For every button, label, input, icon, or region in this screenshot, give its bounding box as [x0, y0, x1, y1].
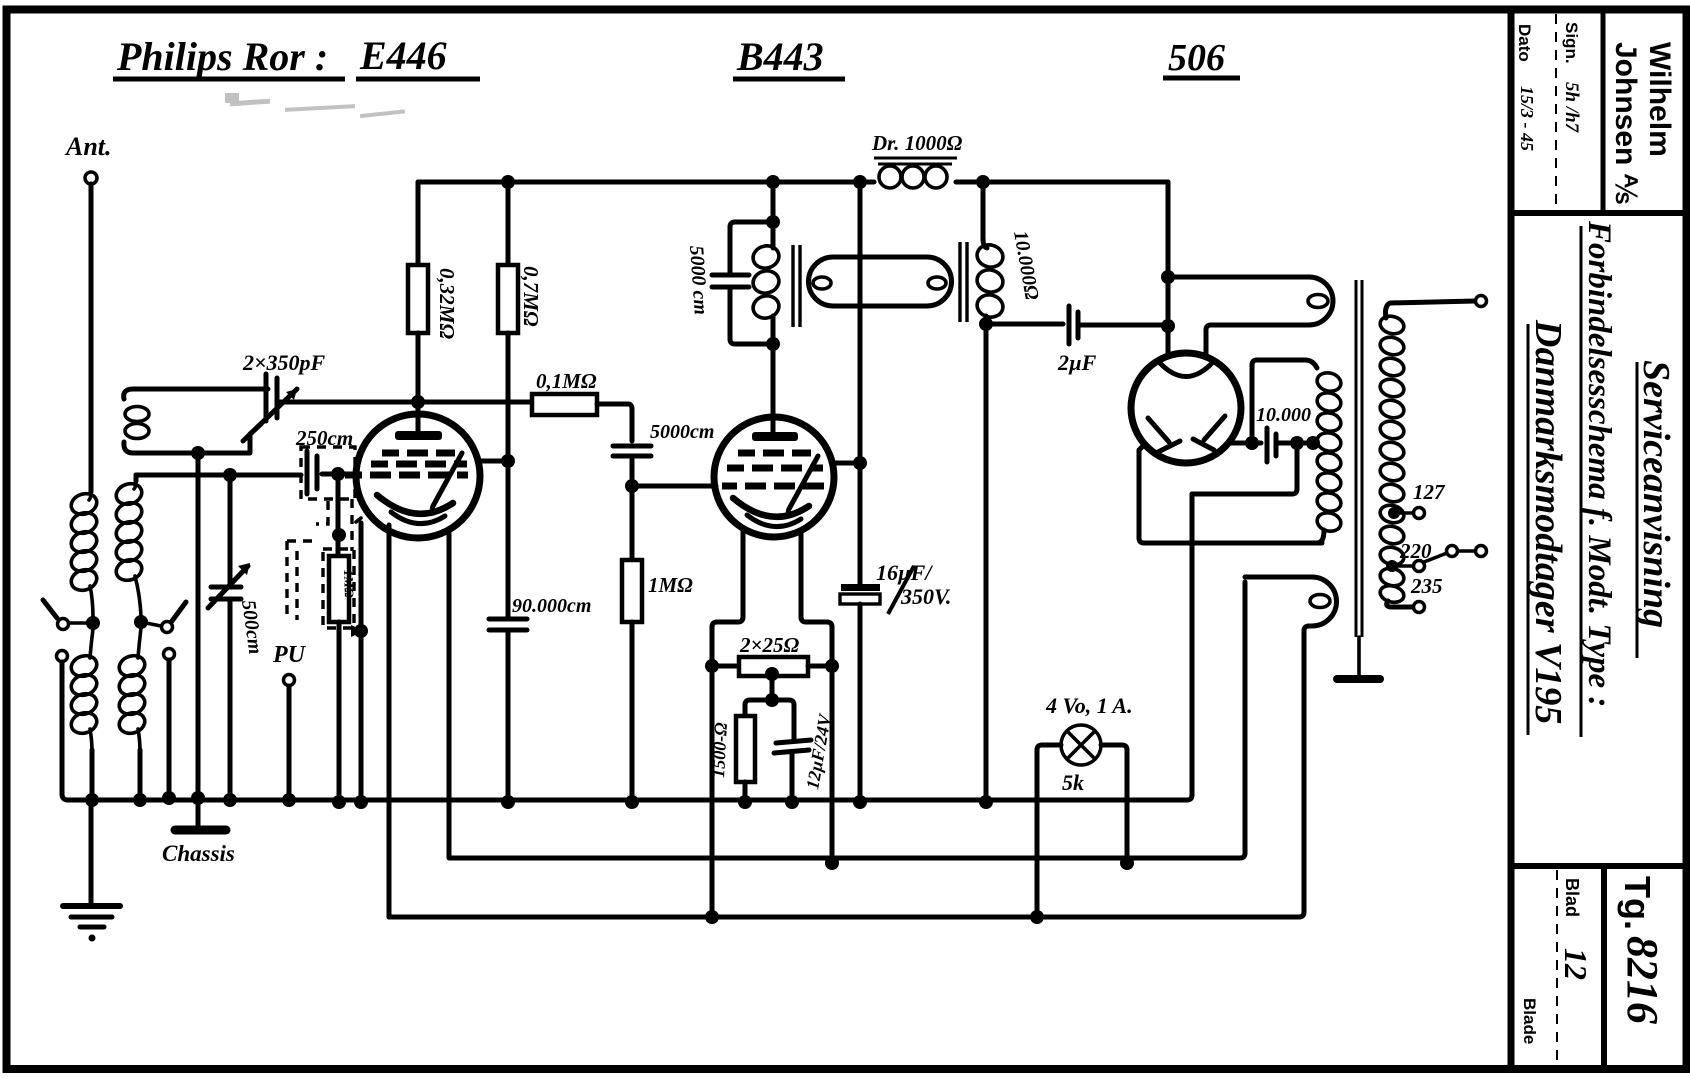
sidebar title Serviceanvisning — [1635, 360, 1677, 658]
choke Dr. 1000 ohm — [879, 166, 947, 188]
company name Wilhelm Johnsen A/S — [1609, 42, 1676, 204]
chassis connection symbol — [175, 798, 226, 830]
core IF1 laminations — [793, 245, 800, 327]
wire B+ right riser — [1166, 182, 1171, 356]
wire B+ to V2 anode — [858, 182, 863, 463]
switch S1 wave-band left — [43, 600, 88, 662]
coil IF2 secondary winding — [975, 182, 1006, 324]
resistor R1 0,32M anode — [408, 182, 428, 402]
sidebar subtitle Forbindelsesschema f. Modt. Type: — [1581, 220, 1617, 737]
svg-text:350V.: 350V. — [900, 584, 951, 609]
svg-text:220: 220 — [1399, 539, 1432, 563]
label 2uF — [1057, 350, 1097, 375]
tube V2 B443 envelope — [714, 417, 834, 537]
node filament return 3 — [705, 910, 719, 924]
Blad field — [1558, 878, 1594, 980]
Tg. number field — [1617, 876, 1667, 1024]
node HT coil top lead — [1245, 436, 1259, 450]
node junction switch A — [86, 616, 100, 630]
faint smudge — [225, 93, 405, 118]
svg-text:2×25Ω: 2×25Ω — [739, 633, 799, 657]
core power transformer — [1356, 280, 1362, 637]
label 0,7M ohm — [519, 266, 543, 327]
label 16uF 350V — [876, 560, 951, 614]
node V2 anode — [853, 456, 867, 470]
title block divider: dashed Blade strip — [1556, 870, 1558, 1062]
Dato value handwritten 15/3-45 — [1517, 86, 1537, 151]
heading tube 506 — [1163, 37, 1240, 79]
node R2 top rail — [501, 175, 515, 189]
node grid leak rail — [332, 795, 346, 809]
tap 235V — [1414, 602, 1425, 613]
node V2 grid junction — [625, 479, 639, 493]
wire hum pot right return — [830, 666, 835, 863]
label 0,32M ohm — [435, 268, 459, 339]
svg-text:Forbindelsesschema f. Modt. Ty: Forbindelsesschema f. Modt. Type : — [1581, 220, 1617, 707]
capacitor 5000cm coupling — [613, 446, 651, 486]
tube V3 506 envelope — [1131, 353, 1241, 463]
node grid junction — [331, 467, 345, 481]
svg-text:0,7MΩ: 0,7MΩ — [519, 266, 543, 327]
svg-text:Serviceanvisning: Serviceanvisning — [1635, 360, 1677, 628]
tube V3 electrodes — [1148, 361, 1225, 452]
node hum pot right — [825, 659, 839, 673]
coil L1 antenna upper winding — [69, 490, 100, 618]
label 5k — [1062, 770, 1084, 795]
svg-text:Chassis: Chassis — [162, 841, 235, 866]
resistor R3 0,1M grid stopper — [532, 394, 632, 441]
title block divider: horizontal under name box — [1511, 210, 1686, 216]
coil link winding race-track — [809, 257, 952, 306]
svg-text:5h /h7: 5h /h7 — [1561, 82, 1582, 134]
resistor 2x25 ohm hum balance — [712, 657, 832, 676]
wire buffer return — [1192, 443, 1297, 494]
label 10.000 ohm vertical — [1009, 229, 1043, 302]
node field coil top — [1161, 270, 1175, 284]
capacitor 2uF coupling — [1069, 306, 1168, 344]
title block divider: dashed between Sign and Dato — [1555, 14, 1557, 210]
svg-text:235: 235 — [1410, 574, 1443, 598]
svg-text:90.000cm: 90.000cm — [512, 595, 591, 617]
wire hum pot left return — [710, 666, 715, 917]
Sign. field — [1562, 22, 1581, 64]
wire chassis line from coupling coil — [196, 453, 201, 798]
svg-text:8216: 8216 — [1618, 936, 1667, 1024]
heading Philips Ror: — [113, 34, 345, 79]
Blade field — [1520, 998, 1539, 1044]
node L4 rail — [133, 793, 147, 807]
label 1500 ohm vertical — [708, 721, 731, 778]
coil L5 oscillator coupling top-left — [124, 389, 268, 453]
resistor 1500 ohm bias — [736, 700, 772, 802]
wire B+ top rail — [418, 180, 1168, 185]
wire tap down — [770, 674, 775, 700]
svg-text:1MΩ: 1MΩ — [648, 573, 693, 597]
svg-text:Blade: Blade — [1520, 998, 1539, 1044]
wire screen down to 90000cm — [506, 461, 511, 617]
wire tuned grid line — [136, 473, 301, 478]
svg-text:Sign.: Sign. — [1562, 22, 1581, 64]
node hum pot left — [705, 659, 719, 673]
svg-text:Dato: Dato — [1515, 24, 1534, 62]
wire IF1 feed — [771, 182, 776, 222]
coil mains winding with taps — [1378, 301, 1475, 607]
node coupling coil tap chassis — [191, 446, 205, 460]
wire V1 anode stub — [478, 459, 508, 464]
wire switch B contact down to rail — [167, 660, 172, 798]
node B+ feed rail — [853, 175, 867, 189]
lamp 4V 1A dial — [1037, 725, 1127, 917]
capacitor 2x350pF variable tuning — [243, 374, 297, 441]
node IF1 bottom — [766, 337, 780, 351]
wire V3 filament right — [1230, 441, 1252, 446]
tube V2 electrodes — [722, 432, 824, 527]
svg-text:Philips Ror :: Philips Ror : — [116, 34, 328, 79]
wire filament line 2 — [450, 582, 1245, 858]
node winding tap — [1306, 436, 1320, 450]
node 16uF rail — [853, 795, 867, 809]
label 0,1M ohm — [536, 369, 597, 393]
ground symbol earth — [63, 800, 120, 942]
shield dashed box around grid leak — [323, 549, 354, 628]
wire V1 filament drop — [447, 530, 452, 858]
capacitor 250cm grid series — [307, 451, 356, 494]
svg-text:Tg.: Tg. — [1617, 876, 1658, 930]
node chassis stem rail — [191, 791, 205, 805]
label 500cm — [237, 599, 266, 656]
title block divider: left vertical line of sidebar — [1508, 9, 1515, 1069]
core IF2 laminations — [960, 242, 967, 322]
capacitor 12uF 24V bias bypass — [772, 700, 811, 802]
svg-text:2×350pF: 2×350pF — [242, 350, 326, 375]
wire HT coil top loop — [1252, 360, 1317, 443]
node R1 bottom grid2 line — [411, 395, 425, 409]
svg-text:5k: 5k — [1062, 770, 1084, 795]
wire IF2 bottom to rail — [984, 324, 989, 802]
node IF1 top rail — [766, 175, 780, 189]
capacitor 90.000cm screen bypass — [489, 619, 527, 802]
tap 220V with selector — [1386, 546, 1487, 573]
node AVC rail — [354, 795, 368, 809]
capacitor 5000cm IF tuned — [712, 222, 773, 344]
node lamp return 2 — [1120, 856, 1134, 870]
label 2x25 ohm — [739, 633, 799, 657]
label 90.000cm — [512, 595, 591, 617]
svg-text:Blad: Blad — [1562, 878, 1582, 917]
wire V2 top cap lead — [771, 344, 776, 434]
capacitor 10.000 buffer — [1252, 428, 1311, 462]
wire V1 cathode drop — [387, 525, 392, 917]
wire V3 filament left down — [1139, 446, 1322, 543]
node filament return 2 — [825, 856, 839, 870]
svg-text:15/3 - 45: 15/3 - 45 — [1517, 86, 1537, 151]
core ground strap — [1337, 637, 1380, 679]
heading tube B443 — [733, 34, 845, 79]
wire grid leak feed — [336, 474, 341, 556]
node switch B rail — [162, 791, 176, 805]
label 2x350pF — [242, 350, 326, 375]
node R4 rail — [625, 795, 639, 809]
label Chassis — [162, 841, 235, 866]
wire V2 anode stub — [832, 461, 860, 466]
node junction switch B — [134, 615, 148, 629]
tap 127V — [1388, 507, 1425, 519]
svg-text:Wilhelm: Wilhelm — [1643, 42, 1676, 157]
coil L4 tuning lower winding — [117, 628, 148, 800]
Sign value handwritten — [1561, 82, 1582, 134]
node IF2 bottom — [979, 317, 993, 331]
node 1500 rail — [738, 795, 752, 809]
PU terminal — [284, 675, 295, 801]
label 10.000 — [1256, 404, 1311, 426]
node lamp return 3 — [1030, 910, 1044, 924]
svg-text:Dr. 1000Ω: Dr. 1000Ω — [871, 131, 963, 155]
wire switch A contact to ground rail — [62, 662, 68, 800]
node grid leak top — [332, 528, 346, 542]
node L2 to rail — [85, 793, 99, 807]
label 12uF 24V vertical — [802, 711, 835, 791]
node IF2 rail — [976, 175, 990, 189]
node 90000cm rail — [501, 795, 515, 809]
node AVC junction — [354, 624, 368, 638]
wire main ground rail — [68, 494, 1192, 800]
label Dr. 1000 ohm — [871, 131, 963, 164]
svg-text:127: 127 — [1413, 480, 1446, 504]
label Ant. — [64, 132, 112, 161]
svg-text:E446: E446 — [359, 33, 447, 78]
node R2 anode wire — [501, 454, 515, 468]
svg-text:B443: B443 — [736, 34, 824, 79]
wire V2 grid stub — [632, 484, 716, 489]
node 500cm rail — [223, 793, 237, 807]
resistor R4 1M grid — [622, 486, 642, 802]
node grid line variable cap — [223, 468, 237, 482]
wire V2 filament right — [801, 534, 832, 666]
wire V2 filament left — [712, 532, 743, 666]
node cathode RC — [765, 693, 779, 707]
svg-text:12: 12 — [1558, 948, 1594, 980]
label 235 — [1410, 574, 1443, 598]
svg-text:Danmarksmodtager V195: Danmarksmodtager V195 — [1527, 319, 1569, 724]
switch S2 wave-band right — [146, 602, 186, 660]
wire AVC return with arrow — [351, 518, 364, 802]
coil HT secondary winding — [1315, 370, 1343, 543]
resistor R5 grid leak 1M — [329, 556, 357, 802]
coil L3 tuning upper winding — [114, 475, 145, 616]
label PU — [272, 642, 307, 668]
node IF1 top — [766, 215, 780, 229]
tube V1 E446 envelope — [356, 414, 480, 538]
label 220 — [1399, 539, 1432, 563]
sidebar model Danmarksmodtager V195 — [1527, 319, 1569, 735]
coil IF1 primary winding — [751, 222, 782, 344]
heading tube E446 — [356, 33, 480, 79]
svg-text:4 Vo, 1 A.: 4 Vo, 1 A. — [1045, 693, 1133, 718]
svg-text:2µF: 2µF — [1057, 350, 1097, 375]
resistor R2 0,7M screen — [498, 182, 518, 461]
svg-text:Johnsen ⅍: Johnsen ⅍ — [1609, 42, 1642, 204]
svg-text:0,1MΩ: 0,1MΩ — [536, 369, 597, 393]
wire grid top line to tube V1 — [279, 400, 532, 405]
label 5000cm coupling — [650, 421, 714, 443]
label 1M ohm — [648, 573, 693, 597]
node IF2 rail bottom — [979, 795, 993, 809]
node hum pot tap — [765, 667, 779, 681]
svg-text:0,32MΩ: 0,32MΩ — [435, 268, 459, 339]
node PU rail — [282, 793, 296, 807]
shield dashed box around 250cm — [301, 447, 355, 551]
capacitor 16uF 350V electrolytic — [840, 463, 880, 802]
shield dashed leads to PU — [287, 501, 328, 620]
label 250cm — [295, 426, 353, 450]
svg-text:PU: PU — [272, 642, 307, 668]
capacitor 500cm variable padder — [208, 475, 250, 800]
svg-text:Ant.: Ant. — [64, 132, 112, 161]
svg-text:5000cm: 5000cm — [650, 421, 714, 443]
coil mains primary race-track — [1245, 577, 1336, 626]
wire filament line 3 — [389, 626, 1309, 917]
coil L2 antenna lower winding — [69, 629, 100, 800]
label 127 — [1413, 480, 1446, 504]
antenna terminal — [85, 172, 97, 184]
coil field winding race-track top — [1168, 277, 1333, 358]
label 5000 cm vertical — [685, 245, 712, 316]
title block divider: horizontal above Tg box — [1511, 863, 1686, 869]
node 2uF junction — [1161, 319, 1175, 333]
svg-text:506: 506 — [1168, 37, 1225, 79]
label 4 Vo 1 A — [1045, 693, 1133, 718]
Dato field — [1515, 24, 1534, 62]
title block divider: vertical between Blad and Tg — [1601, 866, 1607, 1069]
title block divider: vertical between sign column and name — [1601, 10, 1606, 213]
tube V1 electrodes — [345, 402, 468, 524]
svg-text:10.000: 10.000 — [1256, 404, 1311, 426]
node cap to winding — [1290, 436, 1304, 450]
terminal mains top — [1476, 296, 1487, 307]
wire antenna lead down — [89, 184, 94, 492]
node 12uF rail — [785, 795, 799, 809]
wire IF2 to 2uF — [986, 322, 1063, 327]
